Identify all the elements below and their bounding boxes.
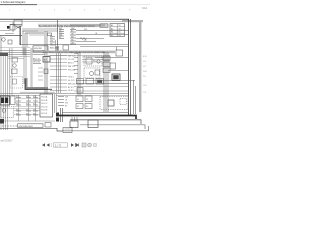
connector dark fill <box>113 75 119 79</box>
label band top <box>38 24 108 27</box>
wire <box>74 86 128 88</box>
inner dashed box <box>120 99 127 105</box>
connector table rows <box>111 24 121 37</box>
wire <box>0 35 22 37</box>
stub dashes left <box>38 68 43 80</box>
nav last <box>76 143 79 147</box>
wire <box>0 120 55 122</box>
svg-text:BY 0.5: BY 0.5 <box>68 87 74 89</box>
wire <box>0 51 45 55</box>
wire vertical main <box>20 26 21 45</box>
svg-text:78: 78 <box>119 35 121 37</box>
title underline <box>0 3 37 6</box>
svg-text:1 Schematic Diagram: 1 Schematic Diagram <box>1 0 26 4</box>
wire <box>27 33 44 35</box>
connector dark C9 <box>112 74 120 81</box>
svg-text:3W: 3W <box>50 41 53 43</box>
svg-text:XJ-2: XJ-2 <box>142 7 148 10</box>
svg-text:GW 1.25: GW 1.25 <box>68 55 75 57</box>
vertical bundle center-right <box>104 52 108 112</box>
svg-text:R24: R24 <box>33 103 36 105</box>
svg-text:LR 0.5: LR 0.5 <box>68 90 74 92</box>
svg-text:R42: R42 <box>16 113 19 115</box>
dashed box bottom-left <box>1 107 14 118</box>
wire <box>21 44 77 46</box>
lamp in dashed box <box>2 109 6 113</box>
svg-text:R43: R43 <box>26 113 29 115</box>
connector block U1 pin labels <box>59 28 63 39</box>
wire long <box>76 30 128 32</box>
svg-text:R22: R22 <box>16 103 19 105</box>
bus vertical right pair 2 <box>130 19 132 116</box>
aux box <box>44 69 48 74</box>
connector block U2 pins right <box>70 30 76 45</box>
wire long <box>76 34 128 36</box>
wire <box>5 33 14 35</box>
page edge shadow horizontal <box>122 20 143 22</box>
svg-text:IGN SW: IGN SW <box>34 48 42 50</box>
grid vertical wires <box>19 95 36 121</box>
svg-text:R23: R23 <box>26 103 29 105</box>
svg-text:A2: A2 <box>111 27 113 30</box>
box <box>76 104 83 109</box>
box <box>12 69 18 74</box>
right edge tiny text <box>143 56 147 94</box>
bottom label box <box>18 124 44 128</box>
bus vertical right pair <box>127 19 129 116</box>
svg-text:34: 34 <box>119 28 121 30</box>
labels right of tall box <box>58 97 64 106</box>
svg-text:ECU A: ECU A <box>42 96 48 99</box>
wire <box>0 47 30 49</box>
thick corner wire gray <box>26 78 48 89</box>
left vertical bundle <box>1 48 12 130</box>
wire vertical <box>57 20 59 53</box>
nav first <box>42 143 46 147</box>
lamp <box>97 60 100 63</box>
left cluster dark <box>0 53 8 57</box>
svg-text:R-L: R-L <box>143 76 146 78</box>
svg-text:GROUND BUS: GROUND BUS <box>19 126 34 128</box>
dark cluster 2 <box>56 118 59 122</box>
inner box <box>86 58 92 64</box>
pin labels <box>50 37 55 46</box>
svg-text:R34: R34 <box>33 109 36 111</box>
wire <box>95 57 128 59</box>
wire vertical bundle mid <box>57 46 61 93</box>
box <box>85 96 92 102</box>
dark box small <box>0 119 4 124</box>
bottom edge wire <box>0 128 63 131</box>
dark pad 1 <box>1 98 4 104</box>
svg-text:R32: R32 <box>16 109 19 111</box>
grid row wire <box>0 108 40 110</box>
bottom small box 2 <box>88 120 98 128</box>
small box column <box>103 56 110 61</box>
box <box>77 88 83 94</box>
small box <box>63 45 69 50</box>
dashed box left <box>10 77 23 89</box>
wire <box>76 81 135 84</box>
wire <box>0 36 2 51</box>
page edge shadow vertical <box>139 21 141 112</box>
connector block U1 pins left <box>59 30 64 39</box>
bottom-center tall box <box>40 94 53 117</box>
svg-text:56: 56 <box>119 32 121 34</box>
component X1 <box>48 33 52 36</box>
wire vertical pair right of box <box>55 94 57 113</box>
center dashed box 1 <box>84 56 102 66</box>
toolbar icon 1 <box>82 143 86 147</box>
separator <box>51 143 54 147</box>
wire vertical <box>116 47 118 50</box>
relay box row 3 dark <box>96 79 104 85</box>
svg-text:R33: R33 <box>26 109 29 111</box>
corner wire dark core <box>25 79 52 89</box>
wire <box>48 55 110 57</box>
bottom bus 5 <box>63 126 149 131</box>
svg-text:WL: WL <box>71 40 74 42</box>
wire labels mid <box>84 29 98 42</box>
top bus wire 2 <box>0 20 129 23</box>
wire <box>8 57 30 59</box>
relay box row 2 <box>86 79 94 85</box>
wire <box>23 31 44 33</box>
svg-text:R14: R14 <box>33 96 36 98</box>
stub wires <box>72 117 77 121</box>
svg-text:WG: WG <box>84 29 88 31</box>
dashed box bottom right <box>100 97 128 110</box>
svg-text:WB 1.25: WB 1.25 <box>68 66 75 68</box>
bottom row boxes center <box>76 96 83 102</box>
svg-text:YB 0.5: YB 0.5 <box>68 76 74 78</box>
wire <box>22 29 58 31</box>
component grid row1 <box>16 98 38 116</box>
column tick labels <box>9 10 131 12</box>
connector table right <box>110 24 125 37</box>
svg-text:A1: A1 <box>111 24 113 27</box>
wire <box>82 57 110 62</box>
bottom bus 2 <box>62 112 128 114</box>
grid horizontal wires <box>14 99 40 115</box>
junction box marks <box>65 129 71 131</box>
dark pad 2 <box>5 98 8 104</box>
svg-text:12: 12 <box>119 25 121 27</box>
component labels col 33-42 <box>33 58 40 63</box>
relay K1 <box>10 25 15 31</box>
wire vertical <box>24 48 26 84</box>
bottom bus 4 <box>80 125 145 129</box>
wire long 2 <box>0 94 128 96</box>
bottom-left connector dark box <box>0 96 10 105</box>
gray band vertical mid-left <box>30 48 32 88</box>
box mid-right <box>110 63 116 69</box>
dark cluster bottom-center <box>56 113 59 117</box>
svg-text:R44: R44 <box>33 113 36 115</box>
svg-text:R13: R13 <box>26 96 29 98</box>
connector block U2 pin labels <box>71 28 74 45</box>
wire <box>20 91 55 93</box>
svg-text:LY 0.85: LY 0.85 <box>68 59 74 61</box>
box <box>85 104 92 109</box>
svg-text:ECU C: ECU C <box>42 103 49 105</box>
top right hanging box <box>116 50 123 56</box>
box <box>95 70 100 75</box>
wire vertical pair <box>45 31 47 94</box>
left component: motor M1 <box>13 64 17 68</box>
top bus wire <box>0 18 129 21</box>
wire <box>10 24 22 26</box>
dashed bus <box>2 125 17 127</box>
wire <box>0 30 10 32</box>
toolbar <box>42 143 53 147</box>
svg-text:RL: RL <box>59 37 61 39</box>
nav prev <box>47 143 50 147</box>
resistor R1 <box>80 38 87 40</box>
box <box>11 96 16 105</box>
wire vertical <box>61 108 63 122</box>
wire vertical right pair <box>134 80 136 114</box>
fuse box F1 <box>43 57 50 63</box>
connector table grid <box>110 24 125 37</box>
svg-text:AM1 AM2: AM1 AM2 <box>50 47 60 50</box>
connector box <box>8 40 12 44</box>
svg-text:B-W: B-W <box>143 56 147 58</box>
nav next <box>71 143 74 147</box>
wire vertical short <box>55 40 57 53</box>
small box right of ground bus <box>45 123 51 128</box>
box <box>12 58 18 63</box>
svg-text:RG 0.85: RG 0.85 <box>68 69 75 71</box>
svg-text:ECU E: ECU E <box>42 110 49 112</box>
svg-text:E1: E1 <box>77 106 79 108</box>
vertical pair <box>78 52 80 95</box>
small box column 2 <box>103 62 110 67</box>
bottom bus 3 <box>70 120 141 124</box>
component in dashed box <box>13 79 17 84</box>
grid labels <box>16 96 36 115</box>
rows in tall box <box>42 96 49 116</box>
lamp in box <box>90 72 94 76</box>
wire <box>76 39 104 42</box>
main bottom bus thick <box>59 116 136 120</box>
lamp L1 <box>2 38 6 42</box>
dark fill in relay <box>97 80 102 83</box>
svg-text:E2: E2 <box>86 106 88 108</box>
center dashed box 2 <box>84 68 100 78</box>
relay box row 1 <box>77 79 84 85</box>
long text band y50 <box>42 51 115 54</box>
svg-text:LW: LW <box>71 34 74 36</box>
svg-text:1 / 3: 1 / 3 <box>55 143 61 147</box>
connector box top <box>100 24 108 28</box>
svg-text:B1: B1 <box>111 32 113 34</box>
svg-text:wd-23 0617: wd-23 0617 <box>1 141 14 143</box>
wire <box>12 22 14 32</box>
wire label rows center <box>50 56 67 91</box>
bottom small box 1 <box>70 121 78 128</box>
wire corner <box>23 31 27 55</box>
wire <box>108 70 128 72</box>
dense label band <box>70 24 105 26</box>
svg-text:ECU F: ECU F <box>42 113 49 115</box>
switch S1 <box>16 27 20 29</box>
component in dashed box <box>108 100 114 106</box>
connector box top-left <box>14 20 22 26</box>
wire row labels <box>68 55 75 92</box>
svg-text:BR 0.5: BR 0.5 <box>68 62 74 64</box>
left pin dashes <box>74 54 78 74</box>
wire <box>74 90 128 92</box>
svg-text:ECU D: ECU D <box>42 106 49 108</box>
toolbar icon 2 <box>88 143 92 147</box>
page input box <box>54 143 68 147</box>
corner junction box <box>63 128 72 133</box>
component row boxes y47 <box>33 46 48 52</box>
svg-text:GW: GW <box>65 96 68 98</box>
header rule <box>37 3 150 6</box>
small box column 3 <box>103 68 110 73</box>
wire <box>76 45 128 47</box>
svg-text:B2: B2 <box>111 35 113 37</box>
wire long <box>0 93 128 95</box>
node dot A <box>7 26 9 29</box>
toolbar icon 3 <box>94 144 97 147</box>
svg-text:GL 1.25: GL 1.25 <box>68 80 75 82</box>
svg-text:WR 0.85: WR 0.85 <box>68 83 75 85</box>
svg-text:ECU B: ECU B <box>42 100 49 102</box>
svg-text:R12: R12 <box>16 96 19 98</box>
